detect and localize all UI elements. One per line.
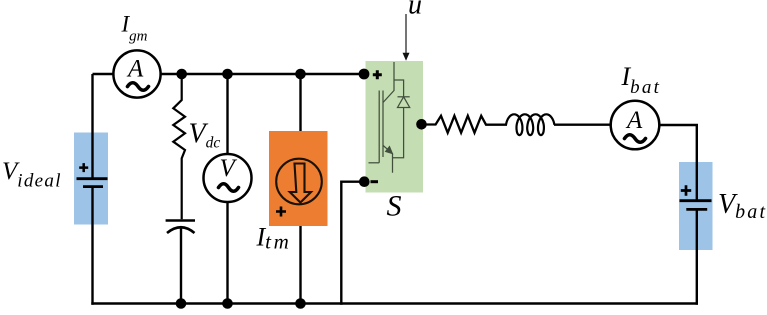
label I_tm [256,223,292,254]
bottom bus wire [91,302,698,304]
svg-text:S: S [387,190,402,223]
battery V_bat blue box [679,162,713,250]
svg-text:Itm: Itm [256,223,292,254]
node on top bus at resistor branch [176,69,187,80]
ammeter I_gm [113,50,160,97]
svg-text:Ibat: Ibat [621,62,662,98]
svg-text:Igm: Igm [121,12,148,45]
voltage source V_ideal blue box [74,133,108,225]
current source I_tm orange box [269,74,328,305]
battery symbol V_ideal [77,74,108,305]
IGBT switch S green box [366,61,424,193]
svg-text:Vdc: Vdc [189,119,221,152]
node on bottom bus at capacitor branch [176,298,187,309]
resistor of V_dc branch [173,74,185,219]
wire: top-left from ammeter to left rail [93,73,114,75]
label V_bat [718,189,767,223]
svg-text:Vbat: Vbat [718,189,767,223]
wire from inductor to ammeter [554,124,611,126]
wire: top bus [161,73,364,75]
node on top bus at voltmeter branch [222,69,233,80]
label V_dc [189,119,221,152]
label S [387,190,402,223]
node on top bus at current source branch [295,69,306,80]
capacitor [166,221,195,305]
wire from ammeter to V_bat [659,125,697,201]
svg-text:u: u [408,0,422,21]
series resistor [422,116,508,133]
node at right of S [416,119,427,130]
plus terminal of S [359,69,382,80]
label I_gm [121,12,148,45]
inductor [506,114,554,135]
ammeter I_bat [611,101,660,150]
label u with arrow [403,0,423,61]
svg-text:Videal: Videal [2,158,62,192]
battery symbol V_bat [680,185,712,304]
minus terminal of S [359,176,378,187]
node on bottom bus at current source branch [295,298,306,309]
node on bottom bus at voltmeter branch [222,298,233,309]
label I_bat [621,62,662,98]
svg-text:A: A [625,107,643,134]
wire from minus terminal down to bottom bus [341,182,364,305]
svg-text:A: A [126,56,144,83]
voltmeter V_dc branch [204,74,252,305]
label V_ideal [2,158,62,192]
IGBT symbol [369,62,410,173]
